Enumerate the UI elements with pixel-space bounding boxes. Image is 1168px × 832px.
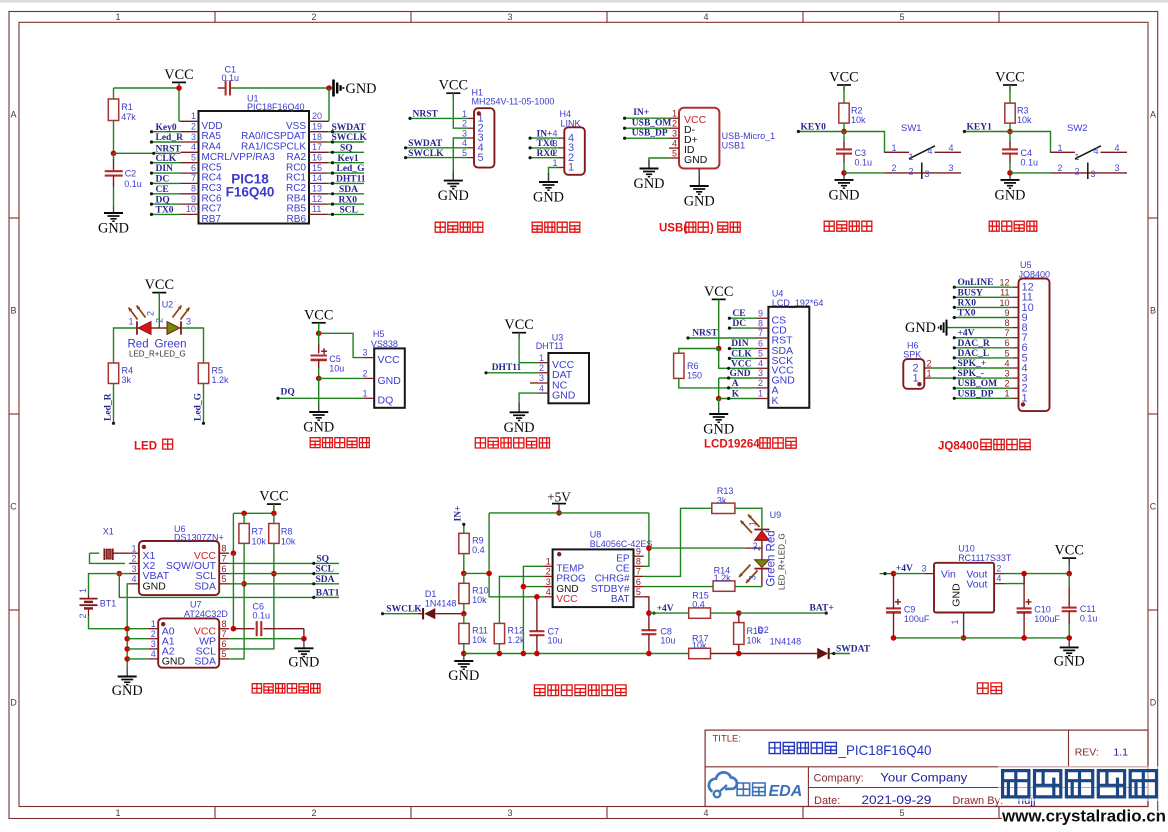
svg-text:8: 8 (758, 318, 763, 328)
H5 pins (363, 357, 374, 359)
junction KEY1 node (1007, 129, 1013, 135)
svg-text:USB(: USB( (659, 223, 687, 235)
svg-text:DHT11: DHT11 (336, 175, 366, 185)
svg-text:2: 2 (927, 358, 932, 368)
svg-text:A: A (1150, 110, 1156, 120)
svg-text:4: 4 (703, 12, 708, 22)
svg-text:B: B (1150, 306, 1156, 316)
wire VCC rail to U1 top (114, 87, 180, 89)
capacitor C1 (225, 81, 227, 96)
svg-text:15: 15 (312, 163, 322, 173)
svg-text:4: 4 (552, 129, 557, 139)
net SCL wire (229, 573, 339, 575)
ground GND below C4 (1009, 173, 1011, 180)
svg-text:REV:: REV: (1075, 747, 1099, 759)
svg-text:U2: U2 (162, 300, 174, 310)
U8 left pins (544, 565, 553, 567)
net SPK_- wire (931, 377, 1013, 379)
wire U7 WP to gnd (229, 638, 304, 640)
junction U6 VCC pin8 (231, 550, 237, 556)
svg-text:JQ8400: JQ8400 (938, 441, 979, 453)
U9 emission arrows green (739, 565, 751, 578)
svg-text:DHT11: DHT11 (536, 341, 564, 351)
svg-text:2: 2 (155, 318, 165, 323)
ground GND power section (1068, 638, 1070, 648)
capacitor C7 (529, 630, 544, 632)
svg-text:10k: 10k (472, 635, 487, 645)
wire K to GND (718, 399, 720, 409)
svg-text:2: 2 (462, 119, 467, 129)
junction plus5V (556, 510, 562, 516)
H1 pin1 indicator (477, 111, 481, 115)
svg-text:6: 6 (191, 163, 196, 173)
svg-text:1: 1 (1004, 389, 1009, 399)
capacitor C6 (233, 628, 254, 630)
svg-text:6: 6 (758, 339, 763, 349)
ground GND right of C1 (329, 87, 332, 89)
svg-text:KEY0: KEY0 (801, 123, 827, 133)
svg-text:2: 2 (78, 613, 88, 618)
svg-text:R5: R5 (212, 366, 224, 376)
svg-text:RX0: RX0 (339, 195, 358, 205)
svg-text:4: 4 (539, 383, 544, 393)
svg-text:VCC: VCC (704, 284, 733, 300)
net CE to U4 pin9 (729, 317, 756, 319)
svg-text:VCC: VCC (995, 70, 1024, 86)
wire KEY1 gnd to switch pin2 (1010, 172, 1051, 174)
caption power (977, 683, 988, 694)
svg-text:3: 3 (191, 132, 196, 142)
svg-text:8: 8 (636, 557, 641, 567)
svg-text:1.2k: 1.2k (714, 573, 732, 583)
svg-text:1: 1 (1075, 152, 1080, 162)
svg-text:A: A (10, 110, 16, 120)
wire VCC to U2 pin2 (158, 293, 160, 328)
svg-text:Vout: Vout (966, 579, 987, 591)
junction IR vcc (316, 331, 322, 337)
svg-text:VCC: VCC (504, 317, 533, 333)
svg-text:1: 1 (950, 619, 960, 624)
svg-text:VCC: VCC (731, 359, 752, 369)
wire U2 right (181, 328, 204, 363)
svg-text:12: 12 (1022, 282, 1034, 294)
svg-text:U4: U4 (772, 288, 784, 298)
svg-text:47k: 47k (121, 112, 136, 122)
svg-text:5: 5 (191, 153, 196, 163)
svg-text:Date:: Date: (814, 795, 840, 807)
svg-text:Key0: Key0 (156, 123, 177, 133)
svg-text:RA2: RA2 (287, 152, 307, 163)
svg-text:GND: GND (98, 221, 129, 237)
connector USB1 box (679, 108, 719, 169)
svg-text:GND: GND (448, 668, 479, 684)
U5 pins (1012, 397, 1018, 399)
svg-text:1N4148: 1N4148 (770, 636, 802, 646)
svg-text:TX0: TX0 (537, 139, 555, 149)
wire +4V to Vin (894, 573, 925, 575)
svg-text:GND: GND (905, 320, 936, 336)
svg-text:9: 9 (636, 546, 641, 556)
U7 left pins (148, 628, 158, 630)
resistor R4 (108, 363, 118, 384)
svg-text:Led_R: Led_R (104, 393, 114, 421)
ground GND below H4 (548, 173, 550, 182)
svg-text:GND: GND (504, 420, 535, 436)
svg-text:0.1u: 0.1u (222, 73, 240, 83)
power gnd rail (894, 637, 1070, 639)
svg-text:14: 14 (312, 173, 322, 183)
wire VSS pin20 to ground rail (327, 120, 330, 122)
svg-text:18: 18 (312, 132, 322, 142)
wire VCC rail U4 (718, 299, 720, 348)
wire U3 pin4 to GND (519, 393, 538, 403)
wire VCC to U3 pin1 (518, 333, 520, 338)
svg-text:2: 2 (539, 363, 544, 373)
svg-text:BAT+: BAT+ (810, 604, 834, 614)
svg-text:5: 5 (899, 808, 904, 818)
svg-text:1: 1 (758, 389, 763, 399)
svg-text:2021-09-29: 2021-09-29 (861, 795, 931, 807)
svg-text:4: 4 (928, 146, 933, 156)
svg-text:SWCLK: SWCLK (332, 133, 368, 143)
U2 emission arrows right (181, 308, 190, 320)
wire TEMP GND tie (523, 566, 543, 653)
junction C3 gnd node (841, 170, 847, 176)
ground GND below C2 (113, 206, 115, 213)
svg-text:100uF: 100uF (904, 614, 930, 624)
junction +4V node (646, 610, 652, 616)
net TX0 to H4 pin3 (530, 147, 558, 149)
resistor R15 (689, 608, 711, 618)
svg-text:GND: GND (303, 420, 334, 436)
svg-text:SPK_-: SPK_- (958, 369, 984, 379)
svg-text:BAT1: BAT1 (316, 588, 340, 598)
svg-text:+4V: +4V (896, 564, 913, 574)
svg-text:RX0: RX0 (958, 298, 977, 308)
svg-text:3: 3 (131, 564, 136, 574)
resistor R13 (712, 503, 735, 513)
svg-text:6: 6 (1004, 338, 1009, 348)
svg-text:R8: R8 (281, 527, 293, 537)
svg-text:GND: GND (995, 187, 1026, 203)
svg-text:TX0: TX0 (156, 206, 174, 216)
svg-text:10u: 10u (329, 363, 344, 373)
svg-text:GND: GND (552, 390, 576, 402)
wire X2 loop (90, 553, 126, 563)
resistor R6 (674, 353, 684, 378)
svg-text:EDA: EDA (769, 783, 803, 800)
svg-text:LCD_192*64: LCD_192*64 (772, 298, 824, 308)
svg-text:3: 3 (1004, 369, 1009, 379)
resistor R5 (198, 363, 208, 384)
net Led_G wire (203, 384, 205, 424)
svg-text:USB_OM: USB_OM (632, 118, 672, 128)
svg-text:SQ: SQ (340, 144, 353, 154)
svg-text:R2: R2 (851, 106, 863, 116)
wire USB1 pin5 to GND (649, 158, 669, 166)
svg-text:SW1: SW1 (901, 123, 922, 134)
junction C9 top (891, 571, 897, 577)
ground GND below C5 (318, 403, 320, 412)
svg-text:2: 2 (672, 119, 677, 129)
svg-text:3: 3 (748, 575, 758, 580)
svg-text:DS1307ZN+: DS1307ZN+ (174, 533, 224, 543)
svg-text:GND: GND (730, 369, 751, 379)
svg-text:BUSY: BUSY (958, 288, 983, 298)
ground GND below U4 (718, 408, 720, 414)
svg-text:Company:: Company: (814, 773, 864, 785)
svg-text:VCC: VCC (1054, 543, 1083, 559)
svg-text:1: 1 (151, 619, 156, 629)
svg-text:7: 7 (758, 328, 763, 338)
resistor R3 (1009, 85, 1011, 103)
svg-text:10k: 10k (472, 595, 487, 605)
junction C4 gnd node (1007, 170, 1013, 176)
svg-text:VCC: VCC (304, 307, 333, 323)
svg-text:2: 2 (131, 554, 136, 564)
svg-text:5: 5 (478, 152, 484, 164)
svg-text:VCC: VCC (259, 489, 288, 505)
LED U9 red (754, 529, 769, 531)
junction rail A2 (124, 646, 130, 652)
svg-text:10: 10 (186, 204, 196, 214)
svg-text:GND: GND (951, 583, 963, 607)
U1 right net label wires (328, 131, 364, 133)
LED U9 green (755, 560, 770, 568)
junction C6 gnd (301, 636, 307, 642)
wire U6 pin4 gnd rail (127, 584, 129, 668)
svg-text:A: A (732, 379, 739, 389)
resistor R1 (113, 88, 115, 99)
svg-text:7: 7 (222, 554, 227, 564)
svg-text:10: 10 (999, 298, 1009, 308)
svg-text:3: 3 (507, 808, 512, 818)
svg-text:+4V: +4V (958, 329, 975, 339)
svg-text:1: 1 (546, 557, 551, 567)
svg-text:4: 4 (131, 574, 136, 584)
IC U10 box (934, 563, 994, 613)
svg-text:SDA: SDA (316, 575, 335, 585)
svg-text:DIN: DIN (731, 339, 749, 349)
svg-text:RC1117S33T: RC1117S33T (958, 553, 1012, 563)
caption li-battery protection module (534, 685, 545, 696)
svg-text:3: 3 (362, 348, 367, 358)
svg-text:GND: GND (112, 683, 143, 699)
svg-text:DQ: DQ (281, 388, 295, 398)
junction U7 VCC pin8 (231, 626, 237, 632)
svg-text:SWCLK: SWCLK (408, 149, 444, 159)
svg-text:SDA: SDA (194, 656, 216, 668)
svg-text:2: 2 (151, 629, 156, 639)
ground GND right of U7 (303, 639, 305, 649)
U3 pin3 stub (530, 382, 538, 384)
svg-text:R6: R6 (687, 361, 699, 371)
U4 pins (757, 317, 769, 319)
svg-text:4: 4 (703, 808, 708, 818)
wire SDA vertical R7 (229, 543, 244, 659)
svg-text:2: 2 (546, 567, 551, 577)
svg-text:1: 1 (672, 109, 677, 119)
wire R6 loop bottom to pin2 A (679, 378, 757, 388)
svg-text:150: 150 (687, 371, 702, 381)
ground GND below H1 (452, 172, 454, 181)
capacitor C8 (641, 629, 656, 631)
USB1 pins (669, 117, 679, 119)
net IN+ to USB1 pin1 (625, 117, 669, 119)
svg-text:2: 2 (1058, 163, 1063, 173)
svg-text:4: 4 (949, 143, 954, 153)
ground GND below C3 (843, 173, 845, 180)
svg-text:5: 5 (462, 148, 467, 158)
svg-text:4: 4 (1004, 358, 1009, 368)
caption IR receiver (310, 438, 320, 448)
svg-text:CE: CE (732, 309, 745, 319)
wire CHRG to R13 (644, 508, 712, 576)
svg-text:R9: R9 (472, 536, 484, 546)
svg-text:SCL: SCL (340, 206, 358, 216)
capacitor C5 (311, 354, 327, 356)
svg-text:GND: GND (703, 422, 734, 438)
svg-text:7: 7 (1004, 328, 1009, 338)
net SWDAT flag (832, 652, 835, 655)
svg-text:USB-Micro_1: USB-Micro_1 (722, 131, 776, 141)
svg-text:3: 3 (758, 368, 763, 378)
svg-text:1: 1 (568, 162, 574, 174)
svg-text:R4: R4 (122, 366, 134, 376)
ground GND below U3 (518, 403, 520, 412)
svg-text:R3: R3 (1017, 106, 1029, 116)
svg-text:NRST: NRST (156, 145, 182, 155)
svg-text:USB_OM: USB_OM (958, 379, 998, 389)
net IN+ wire (463, 524, 465, 533)
junction at VCC rail (176, 85, 182, 91)
svg-text:3: 3 (462, 128, 467, 138)
junction SCL U6 (271, 571, 277, 577)
net SWDAT to H1 pin4 (406, 147, 468, 149)
ground GND below rail (126, 668, 128, 677)
wire H1 pin3 to GND (453, 138, 468, 172)
svg-text:3: 3 (507, 12, 512, 22)
wire R14 to U9 green cathode (735, 586, 762, 588)
net DHT11 wire to U3 pin2 (486, 372, 538, 374)
svg-text:U8: U8 (590, 529, 602, 539)
wire gnd rail U4 (718, 378, 720, 399)
svg-text:VCC: VCC (378, 354, 401, 366)
svg-text:CLK: CLK (156, 154, 177, 164)
svg-text:3: 3 (921, 564, 926, 574)
U8 right pins (634, 555, 644, 557)
svg-text:OnLINE: OnLINE (958, 278, 994, 288)
IC H5 box (374, 348, 405, 407)
svg-text:8: 8 (1004, 318, 1009, 328)
wire vcc pullup rail (273, 504, 275, 513)
svg-text:SWDAT: SWDAT (836, 644, 871, 654)
svg-text:4: 4 (546, 587, 551, 597)
capacitor C9 (886, 607, 901, 609)
svg-text:3: 3 (186, 317, 191, 327)
svg-text:DIN: DIN (156, 164, 174, 174)
wire KEY1 to switch pin1 (1010, 132, 1059, 153)
svg-text:AT24C32D: AT24C32D (184, 609, 228, 619)
svg-text:IN+: IN+ (454, 506, 464, 522)
wire rail to pin4 VCC (719, 349, 757, 369)
U7 right pins (219, 628, 229, 630)
junction KEY0 node (841, 129, 847, 135)
svg-text:4: 4 (151, 649, 156, 659)
caption serial port (532, 222, 542, 232)
IC U1 box (199, 111, 310, 224)
wire Vout pin4 (994, 583, 1004, 585)
wires rail to U7 left pins (127, 628, 148, 630)
svg-text:17: 17 (312, 142, 322, 152)
wire C5 to H5 pin2 (319, 377, 364, 379)
junction R16 bottom (736, 651, 742, 657)
svg-text:5: 5 (1004, 348, 1009, 358)
svg-text:GND: GND (1054, 653, 1085, 669)
svg-text:GND: GND (288, 654, 319, 670)
svg-text:X1: X1 (103, 527, 114, 537)
junction IR gnd (316, 376, 322, 382)
svg-text:2: 2 (311, 12, 316, 22)
svg-text:GND: GND (143, 580, 167, 592)
svg-text:1: 1 (362, 388, 367, 398)
svg-text:10k: 10k (252, 536, 267, 546)
svg-text:2: 2 (909, 167, 914, 177)
U6 right pins (219, 552, 229, 554)
svg-text:3: 3 (925, 169, 930, 179)
svg-text:MCRL/VPP/RA3: MCRL/VPP/RA3 (202, 152, 276, 163)
net SPK_+ wire (931, 367, 1013, 369)
resistor R12 (494, 623, 504, 643)
svg-text:SDA: SDA (339, 185, 358, 195)
svg-text:NRST: NRST (413, 110, 439, 120)
wire pin1 K (719, 398, 757, 400)
svg-text:SPK_+: SPK_+ (958, 359, 987, 369)
wire IR vcc to H5 pin3 (319, 333, 364, 357)
wire SCL vertical R8 (229, 543, 274, 649)
svg-text:LED_R+LED_G: LED_R+LED_G (778, 533, 787, 590)
svg-text:RA5: RA5 (202, 131, 222, 142)
svg-text:5: 5 (899, 12, 904, 22)
svg-text:0.4: 0.4 (692, 600, 705, 610)
net +4V input wire (880, 573, 894, 575)
resistor R9 (459, 533, 469, 553)
svg-text:D: D (1150, 698, 1157, 708)
net +4V flag (652, 612, 655, 615)
net USB_OM to USB1 pin2 (625, 127, 669, 129)
caption download port (435, 222, 445, 232)
svg-text:3: 3 (1091, 169, 1096, 179)
svg-text:CE: CE (156, 185, 169, 195)
junction LCD R6 node (716, 346, 722, 352)
net DC to U4 pin8 (729, 327, 756, 329)
svg-text:7: 7 (191, 173, 196, 183)
svg-text:0.1u: 0.1u (855, 157, 873, 167)
IC U4 box (768, 307, 809, 408)
svg-text:0.1u: 0.1u (1021, 157, 1039, 167)
title block frame (705, 730, 1148, 806)
svg-text:R11: R11 (472, 626, 488, 636)
svg-text:BAT: BAT (611, 594, 630, 605)
svg-text:RC6: RC6 (202, 193, 222, 204)
svg-text:Vin: Vin (941, 569, 956, 581)
svg-text:1: 1 (909, 152, 914, 162)
svg-text:0.1u: 0.1u (124, 179, 142, 189)
svg-text:VS838: VS838 (371, 339, 398, 349)
svg-text:5: 5 (636, 587, 641, 597)
IC U8 box (553, 549, 634, 607)
junction rail A0 (124, 626, 130, 632)
